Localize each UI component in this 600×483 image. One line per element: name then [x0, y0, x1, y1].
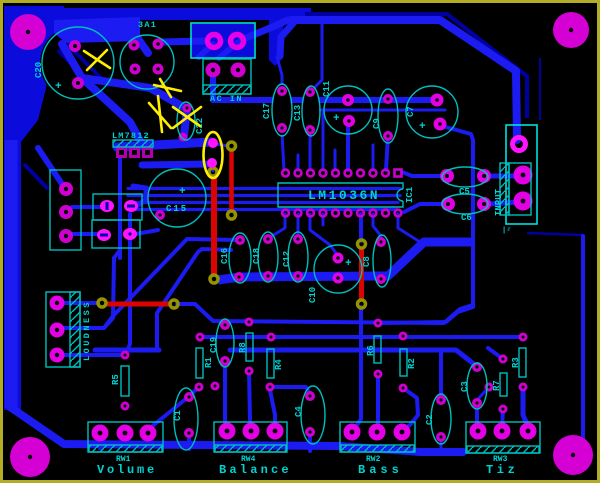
connector INPUT pads	[514, 166, 533, 211]
annotation X mark 1	[84, 50, 223, 178]
capacitor C18 outline	[258, 232, 278, 282]
regulator LM7812 pads	[116, 147, 153, 158]
rectifier 3A1 pads	[129, 39, 164, 75]
wire top band to input	[291, 20, 517, 140]
capacitor C5 outline	[442, 167, 488, 187]
annotation X mark 2	[154, 79, 181, 97]
silkscreen text labels	[34, 20, 521, 477]
resistor R4 pads	[266, 333, 276, 392]
svg-text:R4: R4	[274, 359, 284, 370]
svg-text:R8: R8	[238, 342, 248, 353]
connector AC IN outline	[191, 23, 255, 58]
svg-text:C4: C4	[294, 406, 304, 417]
wire C13 up	[310, 20, 322, 92]
svg-text:R3: R3	[511, 357, 521, 368]
annotation X mark 3	[149, 96, 171, 132]
svg-text:R7: R7	[492, 380, 502, 391]
resistor R5 pads	[121, 351, 130, 411]
IC U1 outline	[278, 183, 403, 207]
resistor R2 outline	[400, 349, 407, 376]
resistor R3 outline	[519, 348, 526, 377]
capacitor C1 pads	[184, 392, 194, 438]
capacitor C4 pads	[305, 391, 315, 437]
capacitor C20 outline	[42, 27, 114, 99]
svg-text:C1: C1	[173, 410, 183, 421]
resistor R2 pads	[399, 332, 408, 393]
capacitor C11 pads	[342, 94, 355, 127]
capacitor C11 outline	[324, 86, 372, 134]
wire left/bottom ground rail	[5, 140, 18, 408]
IC U1 pads top row	[282, 170, 401, 177]
capacitor C1 outline	[174, 388, 198, 450]
annotation ellipse highlight	[204, 132, 223, 178]
svg-text:+: +	[333, 113, 340, 125]
svg-text:R5: R5	[111, 374, 121, 385]
node pad near C3	[485, 383, 494, 392]
svg-text:C18: C18	[252, 248, 262, 264]
resistor R4 outline	[267, 349, 274, 378]
svg-text:R1: R1	[204, 357, 214, 368]
capacitor C10 outline	[314, 245, 362, 293]
capacitor C15 outline	[148, 169, 206, 227]
svg-text:C20: C20	[34, 62, 44, 78]
svg-text:C11: C11	[322, 80, 332, 97]
capacitor C17 outline	[272, 84, 292, 136]
C20 keepout	[40, 25, 116, 101]
svg-text:C3: C3	[460, 381, 470, 392]
connector CN outline	[50, 170, 81, 250]
connector CN pads left	[59, 182, 73, 243]
resistor R8 pads	[245, 318, 254, 376]
wire IC bottom stubs	[268, 214, 285, 239]
svg-text:Tiz: Tiz	[486, 463, 518, 477]
svg-text:C12: C12	[282, 251, 292, 267]
svg-text:C8: C8	[362, 256, 372, 267]
wire LM7812 down to loudness	[62, 158, 120, 328]
capacitor C7 pads	[431, 94, 447, 131]
resistor R1 outline	[196, 348, 203, 378]
connector RW1 outline	[88, 422, 163, 452]
wire y337 horizontal	[202, 335, 520, 339]
wire left mid verticals	[126, 214, 130, 353]
capacitor C20 pads	[69, 40, 84, 89]
wire cap verticals to IC	[346, 121, 350, 170]
node pads highlighted	[207, 138, 218, 168]
mounting hole BL	[10, 437, 50, 477]
capacitor C9 outline	[378, 89, 398, 143]
pads group	[50, 35, 537, 443]
resistor R7 pads	[499, 355, 508, 414]
svg-text:LOUDNESS: LOUDNESS	[82, 300, 92, 361]
svg-text:+: +	[55, 81, 62, 93]
capacitor C2 pads	[436, 395, 446, 442]
connector AC IN pour zone	[192, 24, 254, 57]
svg-text:+: +	[345, 258, 352, 270]
svg-text:R6: R6	[366, 345, 376, 356]
jumper block outline	[93, 194, 142, 220]
annotation X mark 4	[173, 107, 201, 128]
capacitor C22 pads	[179, 104, 192, 142]
dark traces	[24, 14, 583, 235]
capacitor C19 pads	[220, 320, 230, 366]
resistor R3 pads	[519, 333, 528, 392]
rectifier 3A1 outline	[120, 35, 174, 89]
wire left connector feed	[38, 148, 62, 184]
capacitor C16 pads	[234, 235, 245, 282]
capacitor C6 outline	[442, 194, 488, 214]
wire horizontals into IC	[128, 187, 400, 190]
svg-text:Balance: Balance	[219, 463, 292, 477]
svg-text:C5: C5	[459, 187, 470, 197]
regulator LM7812 outline	[113, 140, 153, 147]
svg-text:3A1: 3A1	[138, 20, 157, 30]
capacitor C7 outline	[406, 86, 458, 138]
svg-text:C15: C15	[166, 204, 188, 214]
svg-text:Volume: Volume	[97, 463, 157, 477]
capacitor C3 outline	[467, 363, 487, 409]
svg-text:C17: C17	[262, 103, 272, 119]
jumper block pads	[97, 200, 138, 241]
IC U1 pads bottom row	[282, 210, 401, 217]
capacitor C3 pads	[472, 362, 482, 408]
capacitor C15 pad	[155, 210, 165, 220]
mounting hole TR	[553, 12, 589, 48]
connector RW1 pads	[92, 425, 157, 442]
resistor R5 outline	[121, 366, 129, 396]
svg-text:C2: C2	[425, 414, 435, 425]
capacitor C8 outline	[373, 235, 391, 287]
wire loudness pads	[64, 301, 98, 305]
capacitor C16 outline	[229, 233, 251, 283]
capacitor C18 pads	[263, 234, 273, 281]
connector LOUDNESS outline	[46, 292, 80, 367]
capacitor C5 pads	[440, 169, 491, 183]
resistor R8 outline	[246, 333, 253, 361]
capacitor C4 outline	[301, 386, 325, 444]
capacitor C6 pads	[441, 197, 491, 211]
wire right rail	[581, 236, 585, 440]
red traces	[107, 150, 362, 304]
capacitor C8 pads	[376, 237, 386, 284]
svg-text:-: -	[507, 225, 511, 233]
capacitor C12 pads	[293, 234, 303, 281]
wire y350 horizontals	[95, 348, 159, 353]
svg-text:+: +	[419, 121, 426, 133]
svg-text:IC1: IC1	[405, 186, 415, 203]
svg-text:INPUT: INPUT	[494, 188, 504, 216]
connector RW2 pads	[344, 424, 411, 441]
resistor R7 outline	[500, 373, 507, 396]
capacitor C13 outline	[302, 86, 320, 136]
svg-text:C16: C16	[220, 248, 230, 264]
svg-text:LM1036N: LM1036N	[308, 188, 380, 203]
node via pad	[211, 382, 220, 391]
svg-text:AC IN: AC IN	[210, 94, 243, 104]
connector AC IN block pads	[206, 63, 246, 78]
wire IC top stubs	[297, 155, 300, 170]
wire zigzag from pour to 3A1/LM7812	[62, 44, 187, 136]
wire input pads	[489, 174, 517, 179]
wire y322 horizontal	[177, 304, 473, 323]
wire C19 down to RW4	[225, 361, 227, 429]
svg-text:+: +	[179, 186, 186, 198]
resistor R6 pads	[374, 319, 383, 379]
connector LOUDNESS pads	[50, 296, 65, 363]
svg-text:C7: C7	[406, 106, 416, 117]
resistor R1 pads	[195, 333, 205, 392]
wire bass verticals	[355, 307, 361, 428]
wire AC IN pad traces	[160, 41, 206, 42]
connector RW3 outline	[466, 422, 540, 453]
capacitor C12 outline	[288, 232, 308, 282]
svg-text:Bass: Bass	[358, 463, 403, 477]
capacitor C22 outline	[177, 102, 195, 140]
mounting hole BR	[553, 435, 593, 475]
connector RW4 outline	[214, 422, 287, 452]
mounting hole TL	[10, 14, 46, 50]
wire AC block down and across y100	[213, 74, 434, 100]
capacitor C9 pads	[383, 94, 393, 141]
wire thick blob top	[54, 17, 140, 43]
node pad input top ring	[513, 138, 526, 151]
vias	[98, 142, 366, 308]
svg-text:C19: C19	[209, 337, 219, 353]
connector RW4 pads	[219, 423, 284, 440]
svg-text:C10: C10	[308, 287, 318, 303]
connector RW3 pads	[470, 423, 537, 440]
wire thick mid band y276	[218, 242, 473, 280]
connector INPUT outline	[506, 125, 537, 224]
svg-text:LM7812: LM7812	[112, 131, 150, 141]
wire C2 C3 R7 R3	[439, 352, 443, 398]
capacitor C2 outline	[431, 394, 451, 444]
svg-text:R2: R2	[407, 358, 417, 369]
wire LM7812 arm to node pads	[117, 142, 211, 147]
capacitor C19 outline	[216, 319, 234, 367]
connector RW2 outline	[340, 422, 415, 452]
copper pour top-left	[4, 6, 311, 410]
capacitor C17 pads	[277, 86, 287, 133]
capacitor C10 pads	[333, 253, 344, 284]
svg-text:C9: C9	[372, 118, 382, 129]
resistor R6 outline	[374, 336, 381, 363]
svg-text:C13: C13	[293, 105, 303, 121]
connector AC IN ring pads	[208, 35, 244, 48]
capacitor C13 pads	[305, 87, 315, 135]
svg-text:C6: C6	[461, 213, 472, 223]
